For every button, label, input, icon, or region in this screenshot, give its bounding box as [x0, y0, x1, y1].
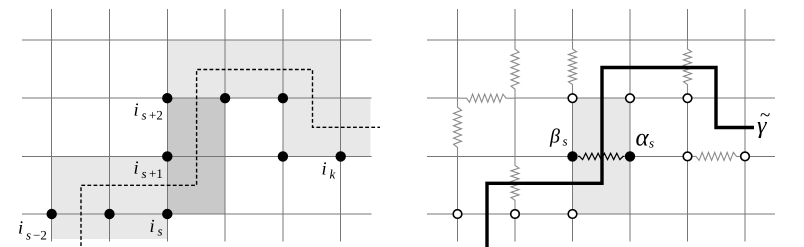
label i_s+1: [135, 161, 163, 178]
label i_s+2: [135, 103, 163, 119]
node dot: [278, 93, 288, 103]
open node circle (687.5,98.2): [683, 94, 692, 103]
spring on edge x=687.5 rows1-2: [684, 40, 692, 94]
node dot: [220, 93, 230, 103]
node i_s+1 dot: [162, 151, 172, 161]
right grid horizontals (gaps where springs replace the edge): [427, 40, 775, 214]
node beta_s dot: [567, 151, 577, 161]
node alpha_s dot: [625, 151, 635, 161]
dark overlap cell (left figure): [167, 98, 225, 214]
shaded band rows3-4 left cells (left figure): [52, 156, 168, 239]
node dot: [278, 151, 288, 161]
label i_k: [323, 162, 336, 178]
dashed tube boundary path (left figure): [81, 70, 380, 247]
left grid verticals: [52, 9, 341, 242]
shaded band row1 cells i3-i5 (left figure): [167, 40, 340, 98]
spring on edge x=457.5 rows2-3: [454, 98, 462, 156]
open node circle (457.5,214): [453, 210, 462, 219]
open node circle (572.5,214): [568, 210, 577, 219]
shaded column (right figure): [573, 98, 631, 214]
open node circle (515,214): [511, 210, 520, 219]
thick path gamma-tilde: [487, 68, 754, 247]
spring on edge x=572.5 rows1-2: [569, 40, 577, 94]
spring on edge x=515 rows3-4: [511, 156, 519, 209]
spring on edge y=156.4 cols5-6: [692, 152, 741, 160]
right grid verticals (gaps where springs replace the edge): [458, 9, 746, 242]
label gamma-tilde: [757, 113, 769, 138]
label i_s-2: [19, 221, 46, 239]
spring on edge x=515 rows1-2: [511, 40, 519, 98]
label alpha_s: [636, 134, 653, 148]
open node circle (687.5,156.4): [683, 152, 692, 161]
open node circle (630,98.2): [626, 94, 635, 103]
node i_s+2 dot: [162, 93, 172, 103]
open node circle (572.5,98.2): [568, 94, 577, 103]
left grid horizontals: [22, 40, 372, 214]
label i_s: [151, 220, 163, 236]
open node circle (745,156.4): [741, 152, 750, 161]
shaded band row2 right cells (left figure): [283, 98, 371, 156]
spring on edge y=98.2 cols1-2: [458, 94, 516, 102]
node i_k dot: [336, 151, 346, 161]
node i_s dot: [162, 209, 172, 219]
spring black between beta_s and alpha_s: [578, 153, 625, 159]
node dot: [104, 209, 114, 219]
label beta_s: [550, 128, 567, 146]
node i_s-2 dot: [47, 209, 57, 219]
